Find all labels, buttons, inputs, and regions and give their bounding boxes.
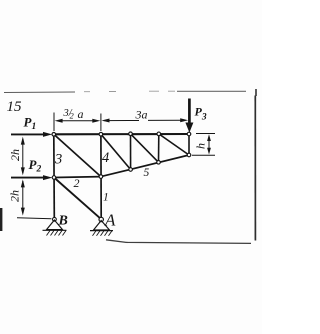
node top 1: [99, 132, 103, 136]
wire: tower diagonal top-left to node 2: [54, 134, 101, 176]
node top 2: [129, 132, 133, 136]
svg-text:2h: 2h: [8, 149, 22, 161]
support A (pin, triangle, ground, hatching): [90, 217, 113, 236]
left page-edge mark: [0, 208, 2, 231]
dimension 2h lower (ticks, line, arrows, rotated label): [17, 181, 52, 219]
node bottom chord 3: [157, 161, 161, 165]
force P2 arrow: [11, 157, 52, 180]
support B (pin, triangle, ground, hatching): [43, 217, 67, 235]
node bottom right: [187, 153, 191, 157]
bottom frame border line: [106, 240, 251, 244]
svg-text:2: 2: [74, 176, 80, 190]
node bottom chord 2: [129, 168, 133, 172]
node mid-left (P2): [52, 176, 56, 180]
force P3 arrow: [185, 99, 206, 133]
wire: vertical at third panel: [158, 134, 160, 162]
node top 3: [157, 132, 161, 136]
wire: vertical at second panel: [130, 134, 132, 170]
dimension 2h upper (ticks, line, arrows, rotated label): [22, 139, 24, 173]
svg-text:2h: 2h: [7, 190, 21, 202]
wire: diagonal panel 3: [159, 134, 189, 155]
svg-text:15: 15: [7, 99, 23, 115]
wire: diagonal panel 2: [131, 134, 159, 163]
svg-text:3: 3: [54, 152, 62, 168]
wire: vertical members 4 and 1: [100, 134, 102, 219]
dimension 3a (line, arrow, label): [104, 119, 184, 121]
node top right: [187, 132, 191, 136]
svg-text:h: h: [193, 143, 207, 149]
svg-text:A: A: [104, 211, 116, 230]
svg-text:a: a: [78, 107, 84, 121]
wire: right end vertical: [188, 134, 190, 155]
wire: bottom sloped chord (member 5): [101, 155, 189, 177]
dimension 3/2 a (ticks, line, arrows, label): [54, 113, 101, 132]
svg-text:3a: 3a: [135, 108, 148, 122]
svg-text:5: 5: [144, 167, 150, 179]
wire: member 2 horizontal: [54, 176, 101, 179]
force P1 arrow: [11, 115, 52, 137]
right frame border line: [254, 96, 256, 241]
svg-text:B: B: [58, 214, 68, 229]
wire: left column (members 3 and below): [53, 134, 56, 219]
wire: lower diagonal to support A: [54, 178, 101, 220]
node top-left: [52, 133, 56, 137]
dimension h right side (ticks, line, arrows, rotated label): [192, 134, 215, 156]
svg-text:1: 1: [103, 192, 109, 204]
top frame border line: [4, 89, 256, 96]
wire: diagonal panel 1: [101, 134, 131, 169]
node 2 (tower bottom-right): [99, 175, 103, 179]
svg-text:4: 4: [102, 150, 109, 166]
wire: top chord: [54, 133, 189, 135]
